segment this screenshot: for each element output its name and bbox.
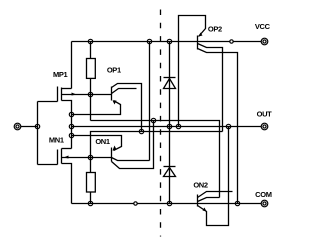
svg-text:OP1: OP1	[107, 66, 121, 75]
transistor OP1 base bar	[111, 87, 113, 101]
transistor OP1 collector line2 stub	[112, 89, 137, 94]
transistor MN1 gate bar	[57, 150, 59, 165]
svg-text:OP2: OP2	[208, 24, 222, 33]
wire diode column	[169, 42, 171, 204]
diode D1 cathode bar	[164, 77, 176, 79]
svg-text:ON1: ON1	[95, 137, 110, 146]
arrow MN1 (points left, into channel)	[64, 156, 69, 159]
svg-text:ON2: ON2	[193, 181, 208, 190]
node J2	[69, 124, 73, 128]
transistor MN1 bulk stub	[62, 157, 91, 159]
wire top rail VCC	[72, 41, 262, 43]
svg-text:VCC: VCC	[255, 22, 271, 31]
wire OP2 emitter loop	[179, 16, 206, 127]
resistor R1	[87, 59, 96, 79]
transistor MN1 drain stub up	[62, 148, 72, 150]
terminals	[14, 38, 268, 207]
input wire	[21, 126, 38, 128]
transistor MP1 gate bar	[57, 87, 59, 102]
transistor MP1 source stub down	[62, 101, 72, 149]
node row120 ON1 riser	[151, 118, 155, 122]
transistor ON2 collector line1 stub	[198, 192, 233, 198]
node OUT-ON2e	[226, 124, 230, 128]
resistor R1 bottom lead	[90, 79, 92, 121]
transistor ON2 collector line2	[198, 198, 220, 202]
terminal OUT	[261, 123, 268, 130]
node rail-149	[147, 39, 151, 43]
node rail-D1	[167, 39, 171, 43]
transistor ON1 base wire	[91, 157, 112, 159]
transistor MP1 bulk stub	[62, 94, 91, 96]
wire J1 row to OP1 emitter	[72, 101, 121, 115]
transistor MP1 gate wire	[38, 101, 58, 103]
diode D1 triangle	[164, 79, 176, 89]
wire row131 OP1 collector to OP2	[91, 132, 223, 173]
svg-text:MN1: MN1	[49, 135, 64, 144]
arrow ON1 collector-side (points down-left into bar)	[113, 146, 117, 151]
node J3	[69, 133, 73, 137]
transistor MP1 drain stub	[62, 88, 72, 90]
transistor ON1 base bar	[111, 148, 113, 162]
input vertical to gates	[37, 102, 39, 165]
transistor OP1 collector line1	[112, 84, 142, 132]
node OUT-OP2e	[176, 124, 180, 128]
dashed isolation line	[160, 10, 162, 237]
transistor MP1 channel bar	[61, 88, 63, 101]
transistor MN1 source stub down to COM	[62, 164, 72, 204]
transistor OP1 base wire	[91, 94, 112, 96]
transistor ON1 collector line1	[112, 158, 150, 161]
svg-text:COM: COM	[255, 190, 272, 199]
terminal COM	[261, 200, 268, 207]
wire left rail down to MP1 drain	[71, 42, 73, 89]
pin dot VCC line	[230, 40, 233, 43]
node OP2c2-COM	[235, 201, 239, 205]
pin dot COM line	[134, 202, 137, 205]
resistor R2	[87, 173, 96, 193]
wire J3 row to ON1 collector	[72, 136, 122, 151]
arrow OP2 emitter (points down-left into bar)	[199, 33, 203, 37]
transistor OP2 collector line1	[198, 44, 223, 132]
terminal VCC	[261, 38, 268, 45]
transistor MN1 gate wire	[38, 164, 58, 166]
arrow OP1 emitter (points up-left into bar)	[113, 101, 117, 105]
arrow ON2 emitter (points down-right away)	[203, 208, 207, 212]
node MP1 bulk R1	[88, 92, 92, 96]
node input	[35, 124, 39, 128]
transistor OP2 base bar	[197, 36, 199, 50]
transistor MN1 channel bar	[61, 149, 63, 164]
transistor ON2 base bar	[197, 195, 199, 207]
resistor R1 top lead	[90, 42, 92, 59]
node J1	[69, 112, 73, 116]
diode D2 cathode bar	[164, 166, 176, 168]
transistor ON1 collector line2 riser	[112, 121, 154, 169]
wire OUT row	[72, 126, 262, 128]
wire rail drop to ON1 collector line	[149, 42, 151, 161]
node rail-R1	[88, 39, 92, 43]
arrows	[64, 33, 207, 212]
node MN1 bulk R2	[88, 155, 92, 159]
resistor R2 bottom lead	[90, 193, 92, 204]
node R2 COM	[88, 201, 92, 205]
svg-text:OUT: OUT	[257, 110, 273, 119]
transistor OP2 collector line2	[198, 49, 238, 204]
node D2-COM	[167, 201, 171, 205]
transistor ON2 emitter to OUT riser	[198, 127, 229, 226]
wire row120 R1 to ON2 collector riser	[91, 121, 220, 198]
svg-text:MP1: MP1	[53, 70, 68, 79]
arrow MP1 (points right, away)	[72, 93, 77, 96]
diode D2 triangle	[164, 168, 176, 177]
terminal IN	[14, 123, 21, 130]
node OP1 collector row131	[139, 129, 143, 133]
wire COM rail	[72, 203, 262, 205]
node OUT-D	[167, 124, 171, 128]
